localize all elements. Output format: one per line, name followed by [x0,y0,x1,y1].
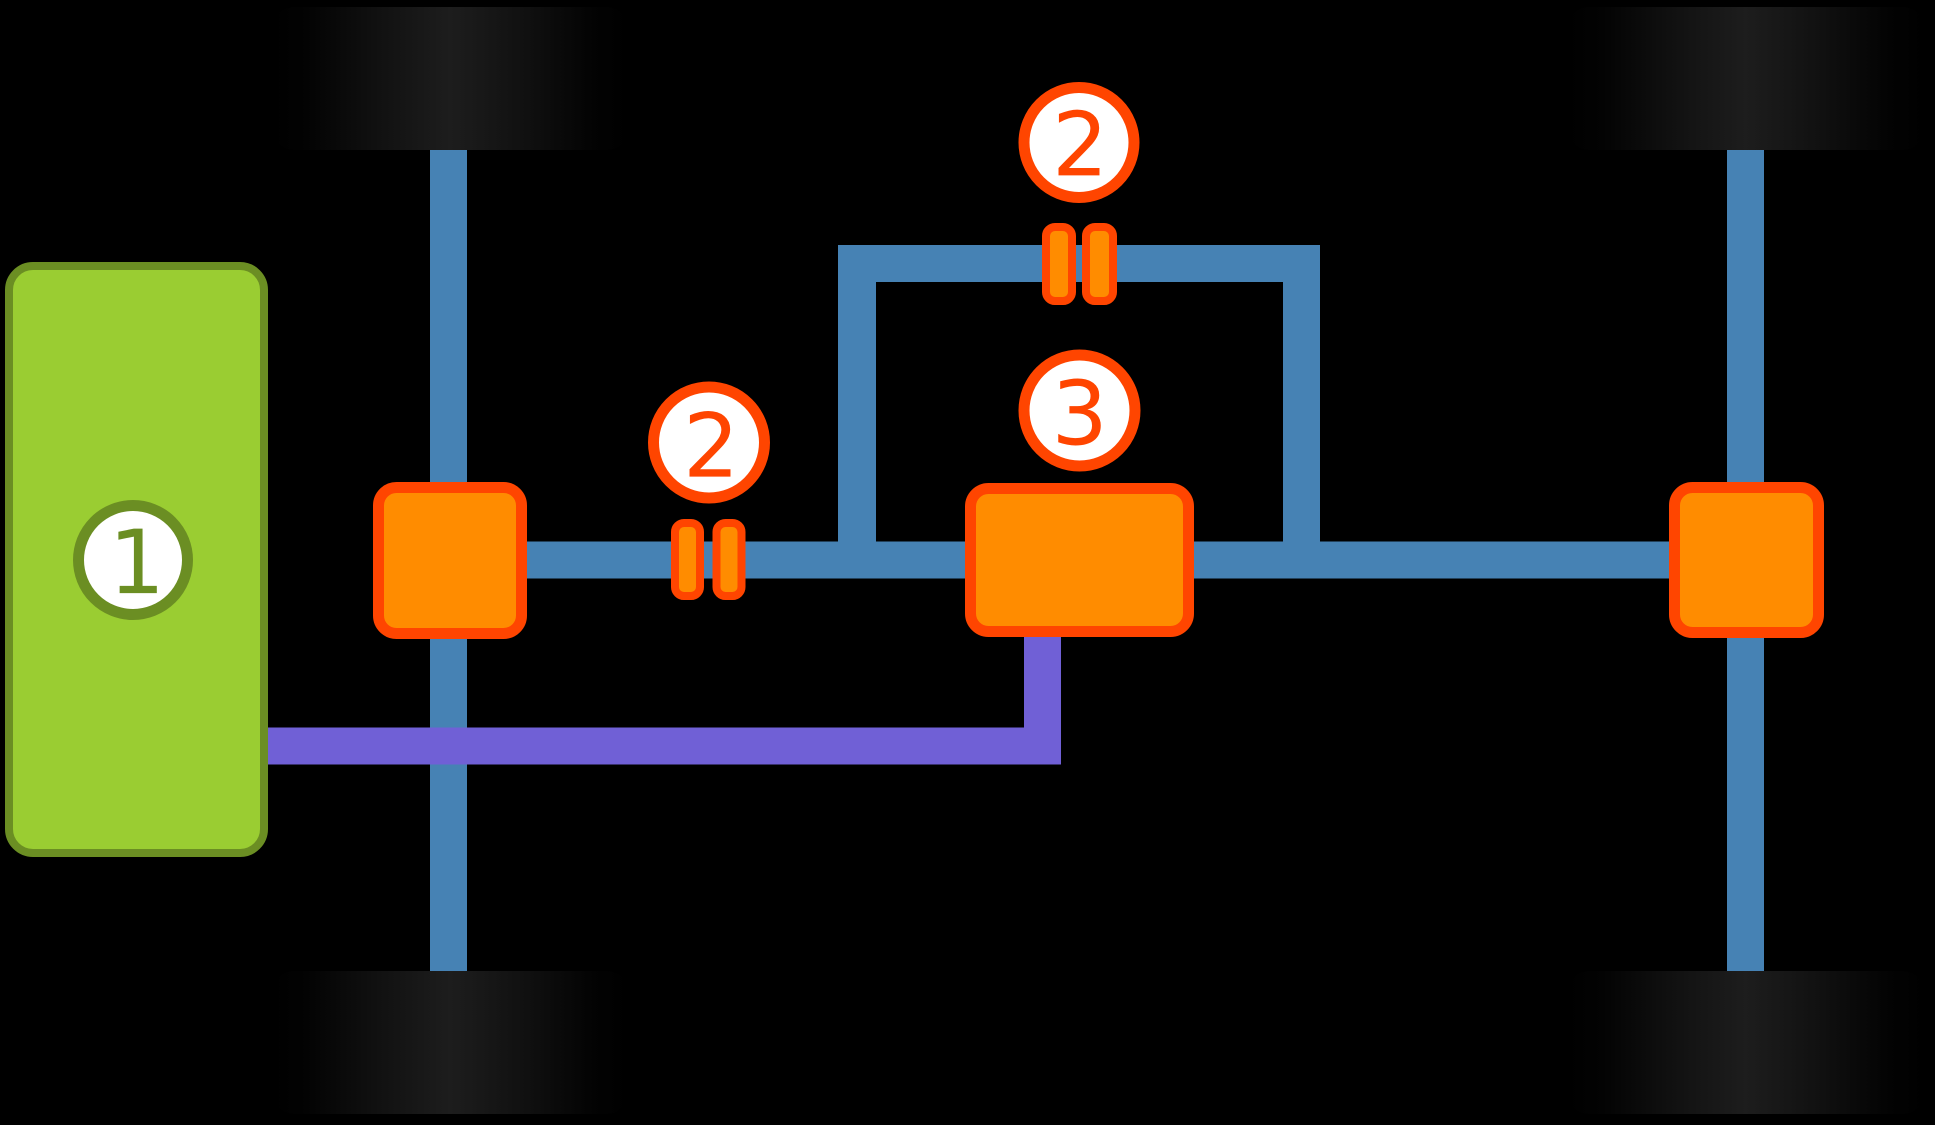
wheel rear-right [1567,971,1925,1114]
shaft bypass loop right leg [1283,245,1320,579]
gearbox front differential [379,488,522,634]
label circle 3 [1024,355,1135,466]
label circle 2 lower [654,387,765,498]
digit 1 [118,529,156,594]
clutch 2 lower bar A [675,523,700,596]
engine 1 box [9,266,264,853]
electric line horizontal [255,728,1061,765]
clutch 2 upper bar A [1046,227,1072,301]
shaft bypass loop top bar [838,245,1320,282]
shaft right axle [1727,150,1764,971]
gearbox 3 center unit [971,489,1189,632]
gearbox rear differential [1675,488,1819,633]
electric line vertical [1024,630,1061,765]
wheel rear-left [272,971,629,1114]
digit 2 lower [690,411,731,477]
shaft left axle [430,150,467,971]
shaft bypass loop left leg [838,245,876,579]
shaft main longitudinal [490,542,1690,579]
digit 2 upper [1059,110,1100,176]
clutch 2 lower bar B [717,523,742,596]
clutch 2 upper bar B [1086,227,1113,301]
label circle 1 [79,506,188,615]
wheel front-left [272,7,629,150]
label circle 2 upper [1024,88,1134,198]
wheel front-right [1567,7,1925,150]
digit 3 [1058,379,1100,446]
